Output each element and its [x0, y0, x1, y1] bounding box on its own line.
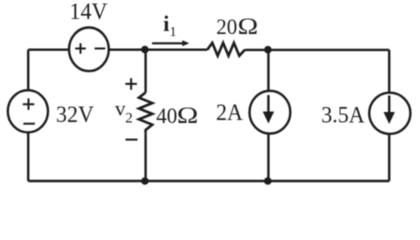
svg-text:32V: 32V — [56, 101, 94, 127]
svg-text:40: 40 — [156, 104, 177, 129]
svg-text:Ω: Ω — [238, 14, 259, 39]
svg-text:1: 1 — [170, 25, 177, 40]
svg-text:2: 2 — [125, 110, 133, 126]
svg-text:20: 20 — [216, 14, 237, 39]
svg-text:2A: 2A — [216, 99, 243, 125]
svg-text:i: i — [163, 11, 169, 36]
svg-text:14V: 14V — [70, 0, 108, 24]
svg-text:3.5A: 3.5A — [321, 102, 365, 128]
svg-text:Ω: Ω — [177, 103, 198, 129]
